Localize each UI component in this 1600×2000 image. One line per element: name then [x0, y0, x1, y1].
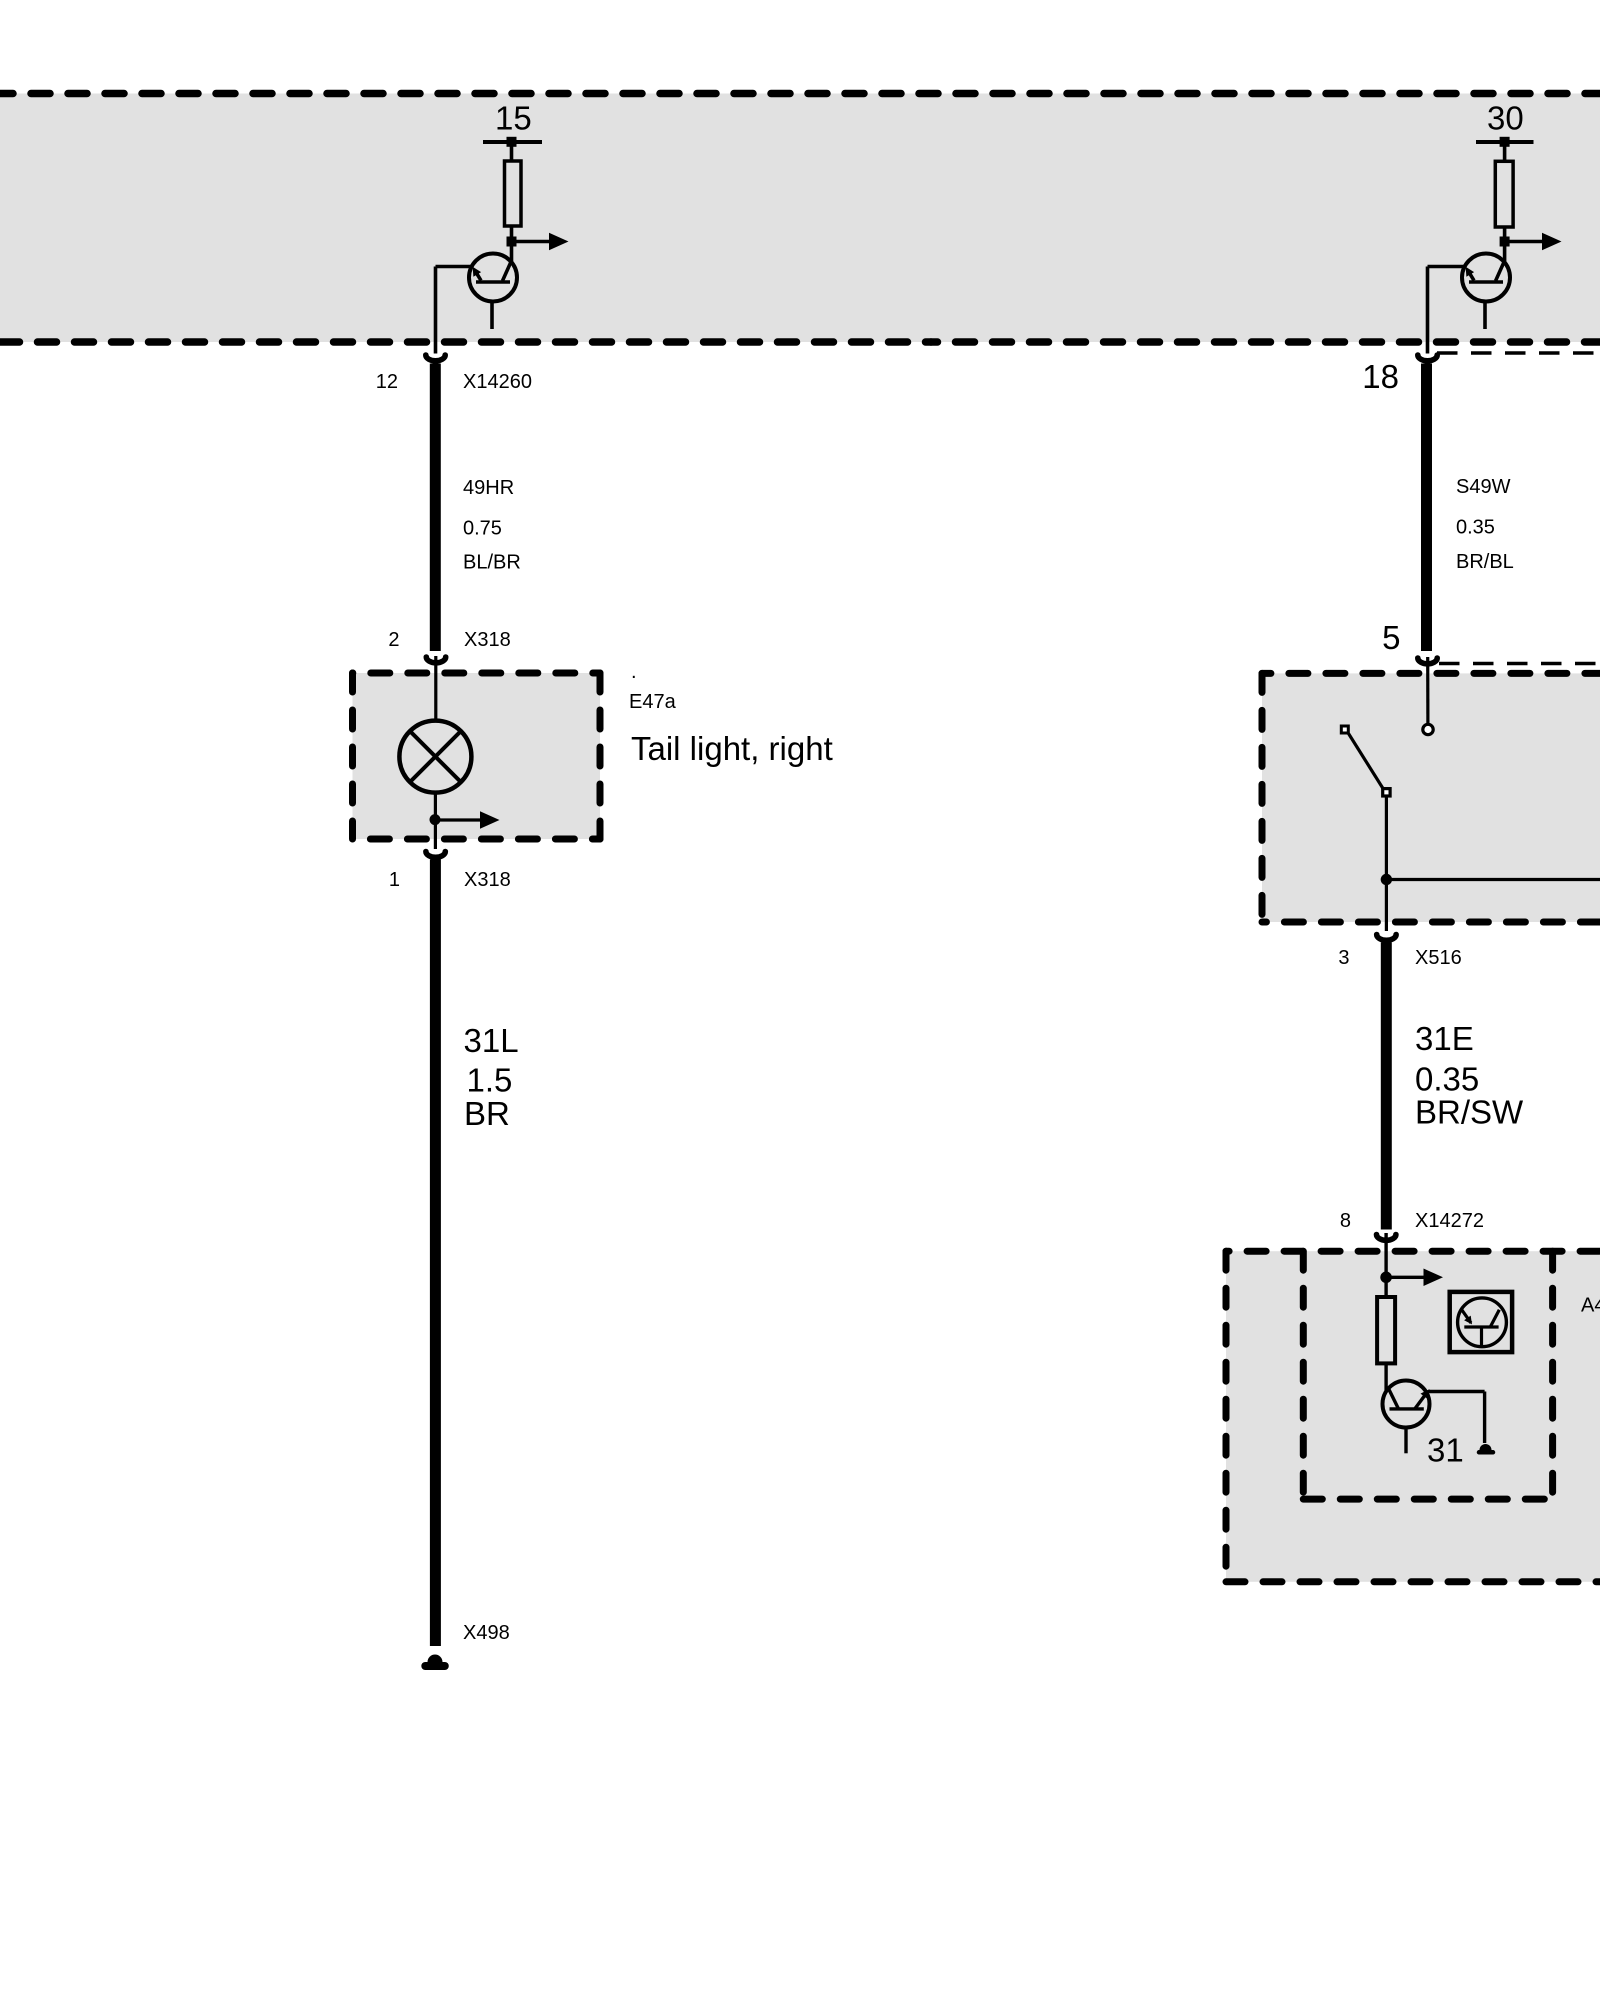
wire to right edge	[1386, 878, 1600, 881]
svg-text:1.5: 1.5	[467, 1062, 513, 1099]
wire below lamp	[434, 793, 437, 820]
connector pin 5 (cup)	[1418, 658, 1437, 664]
connector X318 pin 1 (cup)	[426, 852, 445, 858]
svg-text:BR/BL: BR/BL	[1456, 551, 1514, 573]
transistor Q (module)	[1383, 1381, 1430, 1428]
ground (module internal)	[1480, 1444, 1492, 1450]
svg-text:30: 30	[1487, 100, 1524, 137]
connector X14272 pin 8 (cup)	[1377, 1235, 1396, 1241]
svg-text:31: 31	[1427, 1432, 1464, 1469]
fuse F (left)	[505, 161, 522, 226]
svg-text:BL/BR: BL/BR	[463, 552, 521, 574]
control module outer box (gray, dashed, clipped right)	[1226, 1251, 1600, 1582]
svg-text:E47a: E47a	[629, 691, 677, 713]
svg-text:Tail light, right: Tail light, right	[631, 730, 833, 767]
emitter stub	[1483, 302, 1487, 330]
wire collector	[510, 242, 514, 264]
wire down to connector	[1426, 267, 1430, 354]
wire collector	[1503, 242, 1507, 264]
thick wire 31E	[1381, 943, 1392, 1230]
transistor icon square	[1450, 1292, 1512, 1352]
svg-text:X516: X516	[1415, 947, 1462, 969]
base wire horizontal	[1428, 265, 1466, 269]
transistor icon circle	[1458, 1298, 1507, 1347]
band top dashed border	[0, 90, 1600, 98]
wire resistor to transistor	[1384, 1363, 1387, 1392]
svg-text:31E: 31E	[1415, 1020, 1474, 1057]
node dot terminal 30	[1500, 137, 1510, 147]
arrow (wire continues)	[1505, 240, 1543, 244]
svg-text:BR/SW: BR/SW	[1415, 1094, 1524, 1131]
svg-text:5: 5	[1382, 619, 1400, 656]
terminal 30 bus bar	[1476, 140, 1534, 144]
transistor Q (left, electronic switch)	[469, 254, 517, 302]
svg-text:.: .	[631, 661, 637, 683]
junction dot	[430, 814, 441, 825]
lamp module box E47a (gray, dashed)	[353, 673, 601, 839]
ground G (body ground X498)	[428, 1655, 443, 1663]
wire	[510, 142, 514, 162]
svg-text:15: 15	[495, 100, 532, 137]
connector X14260 pin 12 (cup)	[426, 355, 445, 361]
wire from switch to junction	[1385, 797, 1388, 874]
connector X516 pin 3 (cup)	[1377, 935, 1396, 941]
switch lever	[1349, 734, 1384, 789]
emitter wire right	[1429, 1390, 1485, 1393]
wire down to connector	[434, 267, 438, 354]
junction dot	[1500, 237, 1510, 247]
resistor R (module)	[1377, 1297, 1395, 1363]
band bottom dashed border	[0, 338, 931, 346]
switch pivot square	[1341, 726, 1348, 733]
terminal 15 bus bar	[483, 140, 542, 144]
connector pin 18 (cup)	[1418, 355, 1437, 361]
svg-text:0.75: 0.75	[463, 518, 502, 540]
svg-text:2: 2	[388, 629, 399, 651]
wire into module	[1384, 1233, 1387, 1277]
wire	[1503, 142, 1507, 162]
svg-text:18: 18	[1362, 358, 1399, 395]
junction dot	[1380, 1272, 1392, 1284]
svg-text:A4: A4	[1581, 1295, 1600, 1317]
wire resistor top	[1384, 1277, 1387, 1297]
junction dot	[507, 237, 517, 247]
switch lower contact square	[1383, 789, 1390, 796]
base wire horizontal	[436, 265, 473, 269]
wire into lamp	[434, 656, 437, 722]
fuse F (right)	[1495, 161, 1513, 227]
arrow (wire continues right)	[1386, 1276, 1424, 1279]
base stub down	[1404, 1428, 1407, 1454]
svg-text:X14272: X14272	[1415, 1210, 1484, 1232]
svg-text:31L: 31L	[464, 1022, 519, 1059]
svg-text:S49W: S49W	[1456, 476, 1511, 498]
svg-text:49HR: 49HR	[463, 477, 514, 499]
thick wire 31L	[430, 860, 441, 1647]
svg-text:X14260: X14260	[463, 371, 532, 393]
svg-text:0.35: 0.35	[1415, 1061, 1479, 1098]
right module thin dashed top edge	[1437, 351, 1600, 355]
svg-text:X498: X498	[463, 1622, 510, 1644]
wire down to ground	[1483, 1392, 1486, 1444]
node dot terminal 15	[507, 137, 517, 147]
svg-text:12: 12	[376, 371, 398, 393]
transistor Q (right, electronic switch)	[1462, 254, 1510, 302]
control module inner box (dashed, top edge shared with outer box)	[1303, 1251, 1552, 1499]
wire down out of box	[434, 820, 437, 849]
svg-text:X318: X318	[464, 869, 511, 891]
wire	[1503, 227, 1507, 243]
svg-text:BR: BR	[464, 1095, 510, 1132]
switch S: fixed contact circle	[1423, 724, 1433, 734]
svg-text:3: 3	[1338, 947, 1349, 969]
thick wire S49W	[1421, 364, 1432, 652]
junction dot	[1381, 874, 1392, 885]
connector X318 pin 2 (cup)	[426, 657, 445, 663]
fuse carrier band (gray)	[0, 94, 1600, 343]
arrow (wire continues right)	[435, 818, 481, 821]
wire	[510, 226, 514, 243]
lamp E47a (circle with X)	[399, 721, 471, 793]
wire down out of switch box	[1385, 880, 1388, 932]
switch module box (gray, dashed, clipped right)	[1262, 673, 1600, 922]
svg-text:X318: X318	[464, 629, 511, 651]
svg-text:0.35: 0.35	[1456, 517, 1495, 539]
svg-text:8: 8	[1340, 1210, 1351, 1232]
wire to switch contact	[1426, 657, 1429, 724]
arrow (wire continues)	[512, 240, 551, 244]
emitter stub	[490, 302, 494, 330]
right module thin dashed bottom edge	[1439, 662, 1600, 666]
svg-text:1: 1	[389, 869, 400, 891]
thick wire 49HR	[430, 364, 441, 652]
